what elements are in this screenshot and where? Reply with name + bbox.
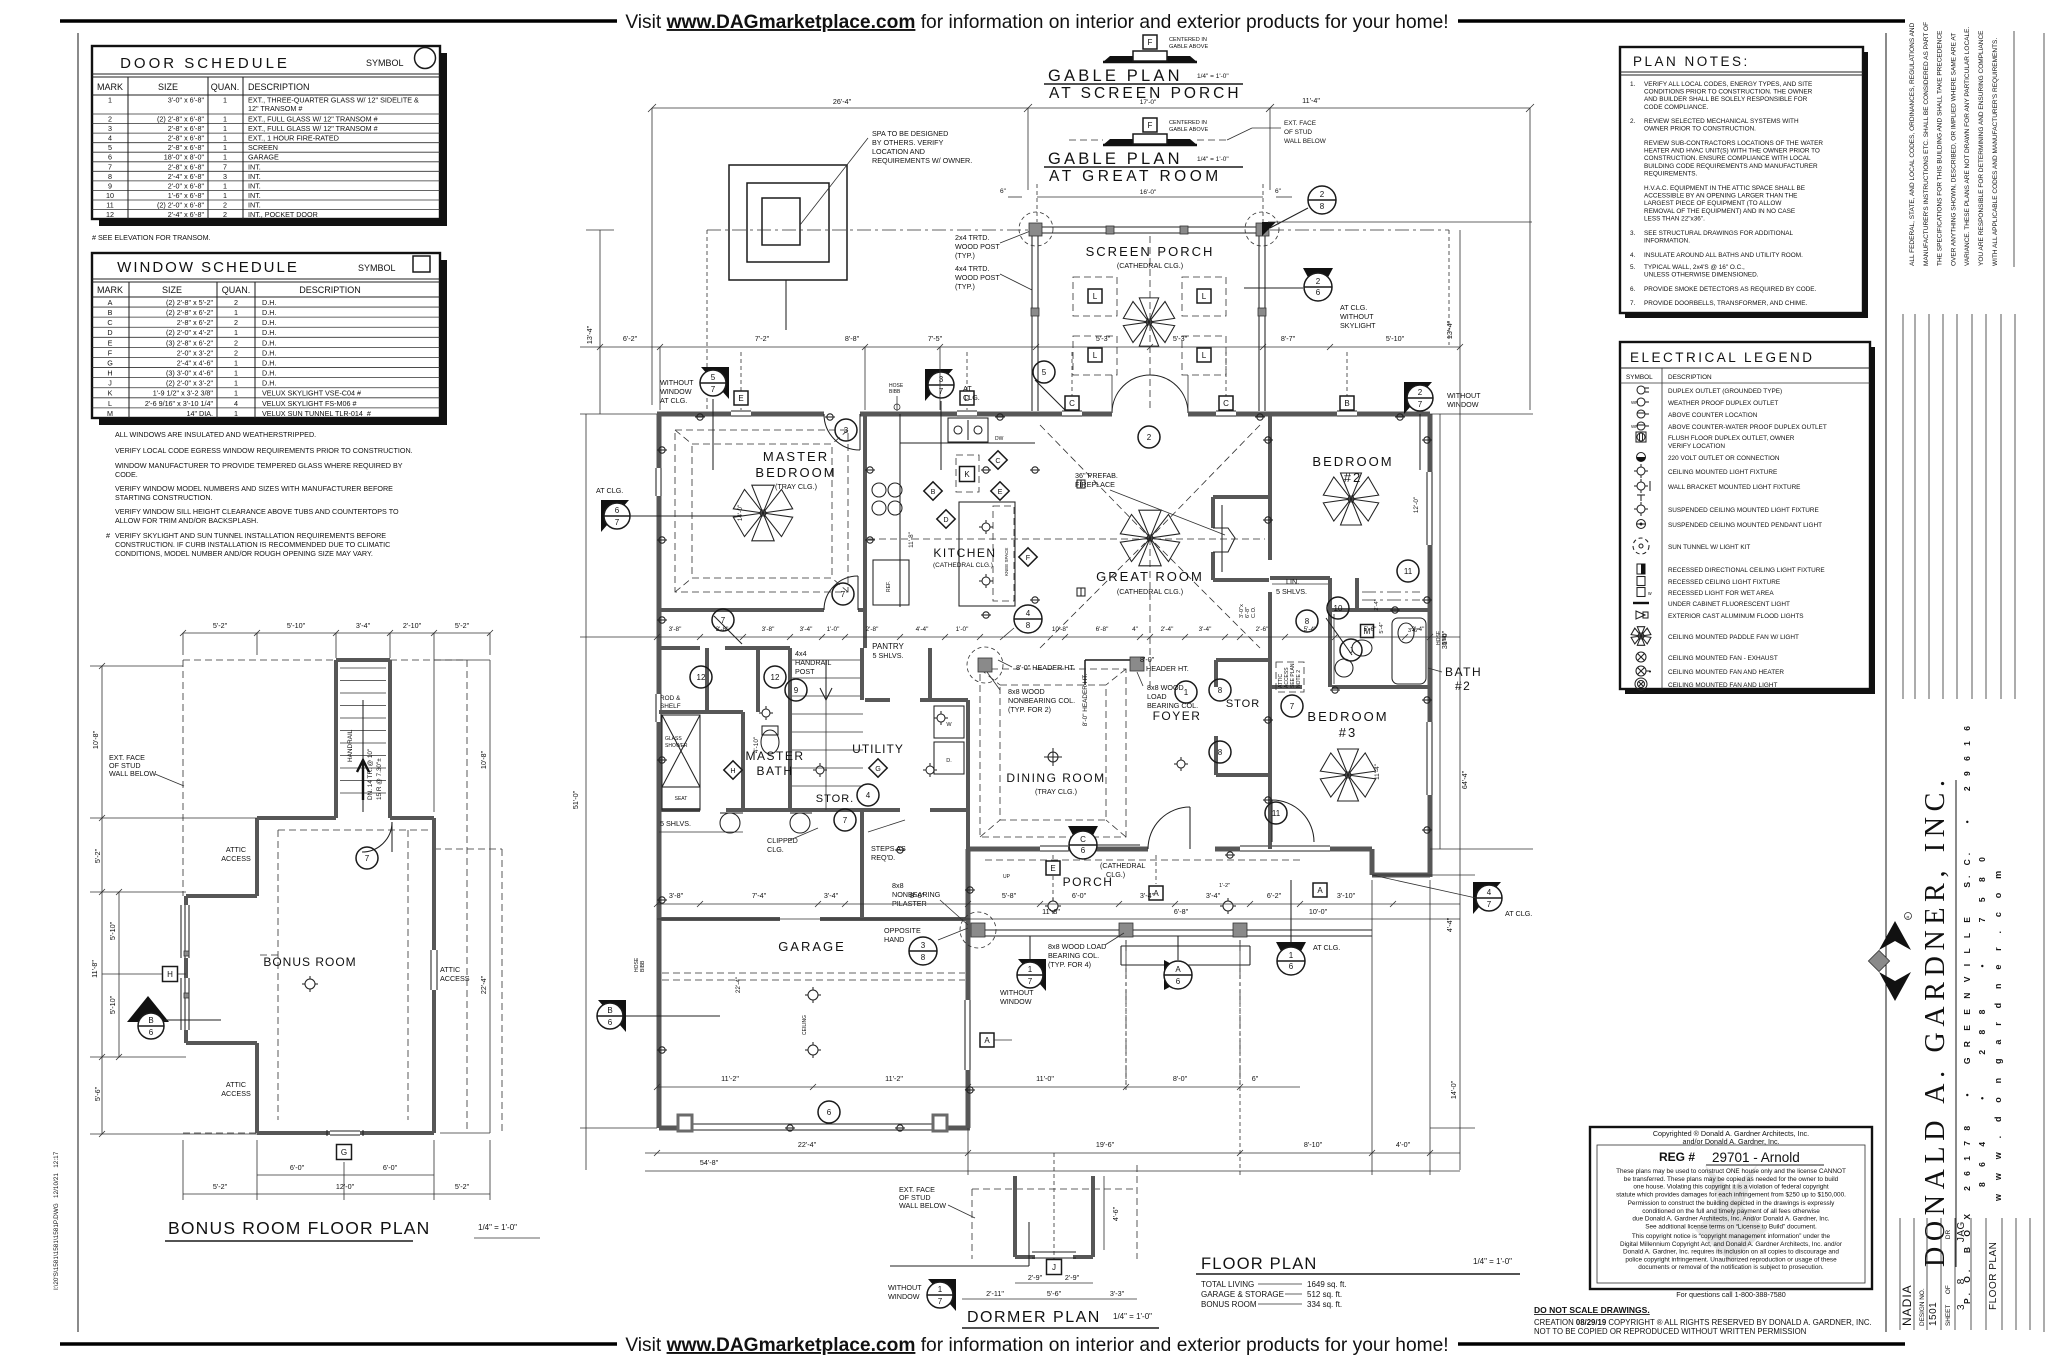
svg-text:8'-8": 8'-8" — [845, 334, 860, 343]
kitchen skylight marker K — [956, 455, 979, 492]
svg-text:7.: 7. — [1630, 300, 1636, 307]
svg-text:SEE STRUCTURAL DRAWINGS FOR AD: SEE STRUCTURAL DRAWINGS FOR ADDITIONAL — [1644, 230, 1793, 237]
svg-text:LESS THAN 22"x36".: LESS THAN 22"x36". — [1644, 215, 1705, 222]
svg-text:KNEE SPACE: KNEE SPACE — [1004, 548, 1009, 576]
svg-text:12: 12 — [771, 673, 780, 682]
great room dashed diagonals — [1040, 425, 1145, 533]
svg-text:5: 5 — [711, 373, 716, 382]
svg-text:4: 4 — [1026, 609, 1031, 618]
svg-text:5'-6": 5'-6" — [1364, 626, 1377, 633]
svg-text:FLOOR PLAN: FLOOR PLAN — [1988, 1242, 1999, 1310]
svg-text:12'-0": 12'-0" — [336, 1182, 355, 1191]
svg-text:G: G — [341, 1148, 347, 1157]
svg-text:2'-4": 2'-4" — [1374, 599, 1380, 610]
ceiling lights main plan — [1048, 901, 1058, 911]
svg-text:3'-4": 3'-4" — [1206, 891, 1221, 900]
svg-text:WITHOUT: WITHOUT — [1000, 988, 1034, 997]
svg-text:DESCRIPTION: DESCRIPTION — [1668, 374, 1712, 381]
svg-text:ATTIC: ATTIC — [440, 965, 460, 974]
svg-text:Permission to construct the bu: Permission to construct the building dep… — [1628, 1200, 1836, 1207]
svg-text:CENTERED IN: CENTERED IN — [1169, 37, 1207, 43]
svg-text:7: 7 — [711, 385, 716, 394]
svg-text:EXT., 1 HOUR FIRE-RATED: EXT., 1 HOUR FIRE-RATED — [248, 134, 339, 143]
screen porch skylight boxes L — [1073, 277, 1117, 316]
svg-text:5'-2": 5'-2" — [455, 1182, 470, 1191]
svg-text:WITH ALL APPLICABLE CODES AND: WITH ALL APPLICABLE CODES AND MANUFACTUR… — [1992, 38, 1999, 266]
svg-text:6: 6 — [615, 506, 620, 515]
svg-text:C: C — [995, 456, 1000, 465]
svg-text:F: F — [1148, 121, 1153, 130]
svg-text:10: 10 — [106, 191, 114, 200]
svg-text:5'-3": 5'-3" — [1173, 334, 1188, 343]
svg-text:8: 8 — [1218, 686, 1223, 695]
stairs to bonus — [788, 648, 792, 810]
svg-text:PROVIDE DOORBELLS, TRANSFORMER: PROVIDE DOORBELLS, TRANSFORMER, AND CHIM… — [1644, 300, 1807, 307]
svg-text:2'-6 9/16" x 3'-10 1/4": 2'-6 9/16" x 3'-10 1/4" — [145, 399, 214, 408]
svg-text:WINDOW: WINDOW — [660, 387, 692, 396]
svg-text:C.O.: C.O. — [1251, 606, 1257, 618]
svg-text:2: 2 — [223, 201, 227, 210]
svg-text:AT: AT — [963, 384, 972, 393]
svg-text:5'-3": 5'-3" — [1096, 334, 1111, 343]
svg-text:GARAGE: GARAGE — [248, 153, 279, 162]
svg-text:BONUS ROOM FLOOR PLAN: BONUS ROOM FLOOR PLAN — [168, 1218, 430, 1238]
svg-text:REQUIREMENTS.: REQUIREMENTS. — [1644, 170, 1697, 177]
svg-text:1649 sq. ft.: 1649 sq. ft. — [1307, 1280, 1347, 1289]
A/6 marker porch — [1164, 960, 1192, 990]
svg-text:1.: 1. — [1630, 81, 1636, 88]
svg-text:K: K — [964, 470, 970, 479]
svg-text:22'-4": 22'-4" — [798, 1140, 817, 1149]
svg-text:7: 7 — [841, 590, 846, 599]
porch/garage dim rows — [657, 903, 1460, 905]
svg-text:D.H.: D.H. — [262, 328, 276, 337]
svg-text:R: R — [1907, 915, 1910, 920]
svg-text:1/4" = 1'-0": 1/4" = 1'-0" — [1113, 1312, 1152, 1321]
right title block border — [1885, 33, 1887, 1332]
screen porch corner posts — [1029, 223, 1042, 236]
svg-text:6: 6 — [108, 153, 112, 162]
svg-text:8: 8 — [1218, 748, 1223, 757]
svg-text:7: 7 — [1028, 977, 1033, 986]
svg-text:PROVIDE SMOKE DETECTORS AS REQ: PROVIDE SMOKE DETECTORS AS REQUIRED BY C… — [1644, 286, 1817, 293]
svg-text:WINDOW: WINDOW — [888, 1292, 920, 1301]
svg-text:(3) 2'-8" x 6'-2": (3) 2'-8" x 6'-2" — [166, 338, 213, 347]
svg-text:DESCRIPTION: DESCRIPTION — [248, 82, 310, 92]
svg-text:GLASS: GLASS — [665, 736, 682, 742]
svg-text:INSULATE AROUND ALL BATHS AND: INSULATE AROUND ALL BATHS AND UTILITY RO… — [1644, 252, 1803, 259]
window schedule table — [99, 260, 447, 425]
svg-text:B: B — [607, 1006, 612, 1015]
svg-text:4'-4": 4'-4" — [1445, 917, 1454, 932]
svg-text:5'-4": 5'-4" — [1379, 622, 1385, 633]
svg-text:SHEET OF: SHEET OF DR — [1945, 1230, 1952, 1326]
svg-text:L: L — [1202, 292, 1207, 301]
svg-text:1'-0": 1'-0" — [827, 626, 840, 633]
svg-text:6": 6" — [1275, 188, 1282, 195]
svg-text:STOR.: STOR. — [816, 793, 854, 805]
svg-text:ABOVE COUNTER LOCATION: ABOVE COUNTER LOCATION — [1668, 412, 1758, 419]
svg-text:one house. Violating this copy: one house. Violating this copyright it i… — [1633, 1184, 1828, 1191]
bonus room: dashed roof outline — [183, 659, 336, 661]
svg-text:SUSPENDED CEILING MOUNTED LIGH: SUSPENDED CEILING MOUNTED LIGHT FIXTURE — [1668, 507, 1819, 514]
svg-text:2'-8": 2'-8" — [866, 626, 879, 633]
porch double door arcs — [1112, 375, 1188, 413]
svg-text:2'-8" x 6'-8": 2'-8" x 6'-8" — [168, 124, 205, 133]
svg-text:INT., POCKET DOOR: INT., POCKET DOOR — [248, 210, 318, 219]
svg-text:(2) 2'-8" x 6'-8": (2) 2'-8" x 6'-8" — [157, 115, 204, 124]
svg-text:J: J — [1052, 1263, 1056, 1272]
svg-text:WALL BELOW: WALL BELOW — [109, 769, 156, 778]
svg-text:64'-4": 64'-4" — [1460, 770, 1469, 789]
svg-text:2'-9": 2'-9" — [1028, 1273, 1043, 1282]
svg-text:7: 7 — [1487, 900, 1492, 909]
svg-text:1: 1 — [1289, 951, 1294, 960]
svg-text:2: 2 — [1320, 190, 1325, 199]
svg-text:4'-0": 4'-0" — [1396, 1140, 1411, 1149]
svg-text:8x8 WOOD: 8x8 WOOD — [1008, 687, 1045, 696]
svg-text:4: 4 — [234, 399, 238, 408]
svg-text:KITCHEN: KITCHEN — [933, 546, 996, 560]
svg-text:6'-8": 6'-8" — [1096, 626, 1109, 633]
screen porch centerline — [1149, 236, 1151, 410]
svg-text:3'-8": 3'-8" — [669, 626, 682, 633]
bottom right title rows — [1899, 1218, 1901, 1330]
svg-text:13'-4": 13'-4" — [1445, 320, 1454, 339]
svg-text:STEPS AS: STEPS AS — [871, 844, 906, 853]
svg-text:due Donald A. Gardner Architec: due Donald A. Gardner Architects, Inc. A… — [1632, 1216, 1829, 1223]
svg-text:L: L — [108, 399, 112, 408]
svg-text:BATH: BATH — [756, 764, 793, 778]
svg-text:CONSTRUCTION. ENSURE COMPLIANC: CONSTRUCTION. ENSURE COMPLIANCE WITH LOC… — [1644, 155, 1811, 162]
svg-text:512 sq. ft.: 512 sq. ft. — [1307, 1290, 1342, 1299]
svg-text:EXT., FULL GLASS W/ 12" TRANSO: EXT., FULL GLASS W/ 12" TRANSOM # — [248, 115, 378, 124]
svg-text:8'-0" HEADER HT.: 8'-0" HEADER HT. — [1082, 674, 1089, 727]
master tray ceiling dashed — [675, 430, 848, 592]
bonus room: elevation marker B/6 — [127, 996, 169, 1022]
svg-text:29701 - Arnold: 29701 - Arnold — [1712, 1150, 1800, 1165]
svg-text:For questions call 1-800-388-7: For questions call 1-800-388-7580 — [1676, 1290, 1785, 1299]
svg-text:B: B — [1344, 399, 1349, 408]
electrical legend box — [1625, 347, 1875, 694]
svg-text:RECESSED DIRECTIONAL CEILING L: RECESSED DIRECTIONAL CEILING LIGHT FIXTU… — [1668, 567, 1825, 574]
8x8 load bearing columns at wall — [978, 658, 992, 672]
svg-text:A: A — [1317, 886, 1323, 895]
svg-text:FLOOR PLAN: FLOOR PLAN — [1201, 1255, 1318, 1273]
svg-text:REG #: REG # — [1659, 1150, 1695, 1164]
svg-text:VERIFY ALL LOCAL CODES, ENERGY: VERIFY ALL LOCAL CODES, ENERGY TYPES, AN… — [1644, 81, 1812, 88]
svg-text:BIBB: BIBB — [640, 960, 646, 972]
svg-text:BEDROOM: BEDROOM — [1307, 709, 1388, 724]
dormer centerline down — [1053, 1153, 1055, 1260]
svg-text:8'-0": 8'-0" — [1140, 655, 1155, 664]
svg-text:2: 2 — [1147, 433, 1152, 442]
svg-text:4: 4 — [1487, 888, 1492, 897]
svg-text:7: 7 — [108, 162, 112, 171]
svg-text:1: 1 — [223, 153, 227, 162]
svg-text:ACCESS: ACCESS — [440, 974, 470, 983]
svg-text:11'-2": 11'-2" — [721, 1074, 739, 1083]
svg-text:NADIA: NADIA — [1900, 1284, 1914, 1326]
svg-text:(CATHEDRAL: (CATHEDRAL — [1100, 861, 1145, 870]
svg-text:(TYP. FOR 2): (TYP. FOR 2) — [1008, 705, 1051, 714]
svg-text:HEADER HT.: HEADER HT. — [1146, 664, 1189, 673]
svg-text:W: W — [946, 722, 952, 728]
svg-text:15 R @ 7.30"±: 15 R @ 7.30"± — [376, 758, 383, 800]
svg-text:C: C — [1223, 399, 1229, 408]
svg-text:54'-8": 54'-8" — [700, 1158, 719, 1167]
exterior wall: south (porch back) — [968, 847, 1040, 852]
svg-text:11'-8": 11'-8" — [908, 532, 915, 548]
svg-text:ELECTRICAL LEGEND: ELECTRICAL LEGEND — [1630, 350, 1815, 365]
svg-text:DESCRIPTION: DESCRIPTION — [299, 285, 361, 295]
svg-text:10'-8": 10'-8" — [91, 730, 100, 749]
svg-text:QUAN.: QUAN. — [222, 285, 251, 295]
south window markers — [1149, 886, 1163, 900]
svg-text:ALL WINDOWS ARE INSULATED AND: ALL WINDOWS ARE INSULATED AND WEATHERSTR… — [115, 430, 316, 439]
donald a gardner logo — [1879, 921, 1911, 950]
bonus room: window marker G — [337, 1145, 352, 1160]
svg-text:CREATION 08/29/19 COPYRIGHT ®: CREATION 08/29/19 COPYRIGHT ® ALL RIGHTS… — [1534, 1318, 1872, 1327]
svg-text:10'-8": 10'-8" — [479, 750, 488, 769]
svg-text:4: 4 — [108, 134, 112, 143]
svg-text:4x4: 4x4 — [795, 649, 807, 658]
svg-text:MARK: MARK — [97, 82, 123, 92]
utility / pantry walls — [863, 610, 867, 648]
great room fireplace — [1213, 495, 1269, 499]
svg-text:334 sq. ft.: 334 sq. ft. — [1307, 1300, 1342, 1309]
svg-text:SHELF: SHELF — [660, 703, 681, 710]
exterior wall: garage right — [966, 849, 971, 1000]
svg-text:2'-8" x 6'-8": 2'-8" x 6'-8" — [168, 162, 205, 171]
svg-text:5'-6": 5'-6" — [93, 1086, 102, 1101]
exterior wall: left — [657, 414, 662, 468]
svg-text:WOOD POST: WOOD POST — [955, 273, 1000, 282]
svg-text:RECESSED LIGHT FOR WET AREA: RECESSED LIGHT FOR WET AREA — [1668, 590, 1774, 597]
svg-text:12" TRANSOM #: 12" TRANSOM # — [248, 104, 302, 113]
svg-text:FOYER: FOYER — [1153, 709, 1202, 723]
svg-text:12: 12 — [106, 210, 114, 219]
svg-text:2'-0" x 6'-8": 2'-0" x 6'-8" — [168, 181, 205, 190]
bedroom2 wing walls — [1268, 414, 1272, 560]
svg-text:11: 11 — [106, 201, 113, 210]
svg-text:ACCESS: ACCESS — [221, 1089, 251, 1098]
svg-text:2.: 2. — [1630, 118, 1636, 125]
svg-text:#3: #3 — [1339, 725, 1357, 740]
svg-text:WALL BELOW: WALL BELOW — [1284, 138, 1327, 145]
svg-text:3.: 3. — [1630, 230, 1636, 237]
svg-text:8x8: 8x8 — [892, 881, 904, 890]
svg-text:WITHOUT: WITHOUT — [660, 378, 694, 387]
svg-text:be transferred. These plans ma: be transferred. These plans may be copie… — [1624, 1176, 1839, 1183]
svg-text:5'-10": 5'-10" — [108, 995, 117, 1014]
svg-text:CODE COMPLIANCE.: CODE COMPLIANCE. — [1644, 104, 1708, 111]
svg-text:5.: 5. — [1630, 264, 1636, 271]
svg-text:HEATER AND HVAC UNIT(S) WITH T: HEATER AND HVAC UNIT(S) WITH THE OWNER P… — [1644, 148, 1820, 155]
svg-text:EXT. FACE: EXT. FACE — [1284, 120, 1316, 127]
svg-text:3: 3 — [921, 941, 926, 950]
svg-text:CLG.): CLG.) — [1106, 870, 1125, 879]
bonus room: top dimensions — [183, 632, 490, 634]
svg-text:WINDOW MANUFACTURER TO PROVIDE: WINDOW MANUFACTURER TO PROVIDE TEMPERED … — [115, 461, 403, 470]
svg-text:BEARING COL.: BEARING COL. — [1048, 951, 1099, 960]
svg-text:E: E — [1050, 864, 1055, 873]
B/6 marker garage left — [598, 1000, 626, 1032]
svg-text:CONSTRUCTION. IF CURB INSTALLA: CONSTRUCTION. IF CURB INSTALLATION IS RE… — [115, 540, 390, 549]
svg-text:10: 10 — [1334, 604, 1343, 613]
svg-text:WINDOW: WINDOW — [1447, 400, 1479, 409]
svg-text:DONALD A. GARDNER, INC.: DONALD A. GARDNER, INC. — [1920, 774, 1951, 1267]
svg-text:L: L — [1093, 351, 1098, 360]
svg-text:6'-0": 6'-0" — [1072, 891, 1087, 900]
reg / copyright box — [1590, 1127, 1872, 1289]
svg-text:REF.: REF. — [886, 581, 892, 592]
lin closet shelves — [1272, 583, 1328, 585]
svg-text:1/4" = 1'-0": 1/4" = 1'-0" — [1197, 73, 1229, 80]
svg-text:2'-8" x 6'-8": 2'-8" x 6'-8" — [168, 134, 205, 143]
4/7 marker right — [1473, 882, 1501, 914]
svg-text:(CATHEDRAL CLG.): (CATHEDRAL CLG.) — [933, 562, 993, 569]
svg-text:CEILING MOUNTED LIGHT FIXTURE: CEILING MOUNTED LIGHT FIXTURE — [1668, 469, 1777, 476]
svg-text:INT.: INT. — [248, 162, 261, 171]
plan notes box — [1625, 52, 1868, 318]
svg-text:A: A — [984, 1036, 990, 1045]
svg-text:BY OTHERS. VERIFY: BY OTHERS. VERIFY — [872, 138, 944, 147]
svg-text:1: 1 — [234, 409, 238, 418]
svg-text:D: D — [943, 515, 948, 524]
screen porch fan — [1123, 298, 1174, 346]
line y=222 to right edge — [1268, 221, 1532, 223]
svg-text:PANTRY: PANTRY — [872, 642, 904, 651]
svg-text:1/4" = 1'-0": 1/4" = 1'-0" — [1197, 156, 1229, 163]
svg-text:SYMBOL: SYMBOL — [358, 263, 396, 273]
svg-text:AT CLG.: AT CLG. — [1340, 303, 1367, 312]
16ft porch dimension — [1037, 196, 1263, 198]
svg-text:6: 6 — [608, 1018, 613, 1027]
svg-text:2: 2 — [234, 298, 238, 307]
svg-text:K: K — [108, 389, 113, 398]
svg-text:REMOVAL OF THE EQUIPMENT) AND: REMOVAL OF THE EQUIPMENT) AND IN NO CASE — [1644, 208, 1795, 215]
svg-text:OWNER PRIOR TO CONSTRUCTION.: OWNER PRIOR TO CONSTRUCTION. — [1644, 126, 1756, 133]
svg-text:D.H.: D.H. — [262, 338, 276, 347]
svg-text:11'-4": 11'-4" — [1302, 96, 1320, 105]
svg-text:4": 4" — [1132, 626, 1138, 633]
svg-text:UNLESS OTHERWISE DIMENSIONED.: UNLESS OTHERWISE DIMENSIONED. — [1644, 272, 1759, 279]
svg-text:5: 5 — [108, 143, 112, 152]
svg-text:documents or removal of the no: documents or removal of the notification… — [1638, 1264, 1824, 1271]
svg-text:OPPOSITE: OPPOSITE — [884, 926, 921, 935]
mid horizontal dimension line — [580, 636, 1460, 638]
gable plan at great room — [1143, 118, 1157, 132]
svg-text:C: C — [1080, 835, 1086, 844]
svg-text:YOU ARE RESPONSIBLE FOR DETERM: YOU ARE RESPONSIBLE FOR DETERMINING AND … — [1978, 30, 1985, 266]
svg-text:NOT TO BE COPIED OR REPRODUCED: NOT TO BE COPIED OR REPRODUCED WITHOUT W… — [1534, 1327, 1806, 1336]
bath2 closet partition — [1355, 578, 1359, 612]
svg-text:CEILING MOUNTED FAN AND LIGHT: CEILING MOUNTED FAN AND LIGHT — [1668, 682, 1777, 689]
recessed marks great room — [1077, 480, 1085, 488]
svg-text:HANDRAIL: HANDRAIL — [795, 658, 831, 667]
top wall window sills — [731, 410, 751, 412]
dormer plan: walls — [1013, 1176, 1017, 1257]
lower dim row — [657, 1086, 1300, 1088]
svg-text:(CATHEDRAL CLG.): (CATHEDRAL CLG.) — [1117, 587, 1183, 596]
door schedule table — [99, 53, 447, 226]
svg-text:ABOVE COUNTER-WATER PROOF DUPL: ABOVE COUNTER-WATER PROOF DUPLEX OUTLET — [1668, 424, 1827, 431]
svg-text:1: 1 — [234, 369, 238, 378]
svg-text:E: E — [738, 394, 743, 403]
roof dash-dot lines — [707, 229, 1029, 231]
svg-text:10'-0": 10'-0" — [1309, 907, 1328, 916]
master bath shower — [662, 715, 700, 787]
svg-text:11'-4": 11'-4" — [1374, 764, 1381, 780]
upper dim row (y=347) — [580, 346, 1460, 348]
exterior wall: top — [657, 412, 731, 417]
bonus room: door arc at stairs — [362, 822, 392, 852]
svg-text:CLG.: CLG. — [963, 393, 980, 402]
svg-text:6: 6 — [827, 1108, 832, 1117]
svg-text:8x8 WOOD LOAD: 8x8 WOOD LOAD — [1048, 942, 1106, 951]
svg-text:4: 4 — [866, 791, 871, 800]
svg-text:VERIFY WINDOW MODEL NUMBERS AN: VERIFY WINDOW MODEL NUMBERS AND SIZES WI… — [115, 484, 393, 493]
svg-text:16'-0": 16'-0" — [1140, 189, 1157, 196]
svg-text:H: H — [167, 970, 173, 979]
svg-text:1: 1 — [223, 124, 227, 133]
svg-text:SUSPENDED CEILING MOUNTED PEND: SUSPENDED CEILING MOUNTED PENDANT LIGHT — [1668, 522, 1822, 529]
svg-text:BONUS ROOM: BONUS ROOM — [1201, 1300, 1257, 1309]
svg-text:7'-2": 7'-2" — [755, 334, 770, 343]
svg-text:VELUX SKYLIGHT FS-M06 #: VELUX SKYLIGHT FS-M06 # — [262, 399, 357, 408]
svg-text:7'-4": 7'-4" — [752, 891, 767, 900]
svg-text:3'-3": 3'-3" — [1110, 1289, 1125, 1298]
svg-text:LOAD: LOAD — [1147, 692, 1167, 701]
svg-text:1: 1 — [234, 328, 238, 337]
porch roof dashes — [1125, 940, 1127, 1085]
svg-text:statute which provides damages: statute which provides damages for each … — [1616, 1191, 1846, 1198]
svg-text:DW: DW — [995, 436, 1004, 442]
svg-text:4'-4": 4'-4" — [916, 626, 929, 633]
svg-text:WITHOUT: WITHOUT — [1340, 312, 1374, 321]
svg-text:ALL FEDERAL, STATE, AND LOCAL: ALL FEDERAL, STATE, AND LOCAL CODES, ORD… — [1909, 22, 1916, 266]
svg-text:5'-10": 5'-10" — [1386, 334, 1405, 343]
svg-text:5 SHLVS.: 5 SHLVS. — [872, 651, 903, 660]
svg-text:3: 3 — [939, 375, 944, 384]
svg-text:1'-9 1/2" x 3'-2 3/8": 1'-9 1/2" x 3'-2 3/8" — [153, 389, 214, 398]
svg-text:7: 7 — [615, 518, 620, 527]
1/6 marker right porch — [1276, 942, 1306, 970]
window diamonds kitchen — [989, 451, 1007, 469]
svg-text:and/or Donald A. Gardner, Inc.: and/or Donald A. Gardner, Inc. — [1682, 1137, 1779, 1146]
bottom banner — [60, 1342, 617, 1346]
svg-text:6'-0": 6'-0" — [290, 1163, 305, 1172]
svg-text:BEDROOM: BEDROOM — [755, 465, 836, 480]
svg-text:3'-4": 3'-4" — [1412, 626, 1425, 633]
svg-text:WEATHER PROOF DUPLEX OUTLET: WEATHER PROOF DUPLEX OUTLET — [1668, 400, 1778, 407]
svg-text:5'-10": 5'-10" — [108, 921, 117, 940]
svg-text:3'-4": 3'-4" — [824, 891, 839, 900]
svg-text:conditioned on the full and ti: conditioned on the full and timely payme… — [1642, 1208, 1820, 1215]
svg-text:EXT., FULL GLASS W/ 12" TRANSO: EXT., FULL GLASS W/ 12" TRANSOM # — [248, 124, 378, 133]
svg-text:VERIFY WINDOW SILL HEIGHT CLEA: VERIFY WINDOW SILL HEIGHT CLEARANCE ABOV… — [115, 507, 399, 516]
svg-text:D.H.: D.H. — [262, 369, 276, 378]
svg-text:5'-2": 5'-2" — [93, 848, 102, 863]
bonus room: circled 7 at stair door — [356, 847, 378, 869]
svg-text:(TYP.): (TYP.) — [955, 251, 975, 260]
svg-text:1: 1 — [234, 379, 238, 388]
svg-text:1'-2": 1'-2" — [1219, 883, 1230, 889]
svg-text:3 8 JAG: 3 8 JAG — [1956, 1221, 1967, 1310]
svg-text:SKYLIGHT: SKYLIGHT — [1340, 321, 1376, 330]
svg-text:CEILING MOUNTED PADDLE FAN W/: CEILING MOUNTED PADDLE FAN W/ LIGHT — [1668, 634, 1799, 641]
